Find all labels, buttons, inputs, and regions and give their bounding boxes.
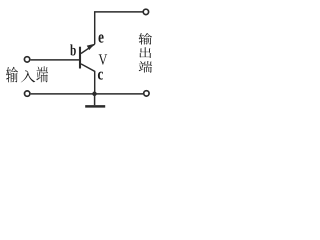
label 输出端 (output terminal, vertical) xyxy=(139,33,152,45)
ground xyxy=(94,94,96,105)
transistor V emitter lead xyxy=(81,44,95,53)
transistor V collector lead xyxy=(81,64,95,94)
transistor V emitter arrow (pointing out) xyxy=(87,44,95,50)
terminal: output top-right xyxy=(143,9,148,14)
label 输入端 (input terminal) xyxy=(6,67,18,83)
terminal: input top-left xyxy=(24,57,29,62)
label e (emitter pin) xyxy=(99,34,104,42)
wire: input to base xyxy=(31,59,80,61)
label c (collector pin) xyxy=(98,72,103,80)
label V (transistor designator) xyxy=(99,54,108,64)
wire: emitter up and right to output xyxy=(95,12,143,44)
wire: bottom rail xyxy=(31,93,143,95)
junction node dot xyxy=(92,92,97,97)
terminal: output bottom-right xyxy=(144,91,149,96)
transistor V base bar xyxy=(79,47,81,69)
label b (base pin) xyxy=(70,44,76,55)
terminal: input bottom-left xyxy=(25,91,30,96)
